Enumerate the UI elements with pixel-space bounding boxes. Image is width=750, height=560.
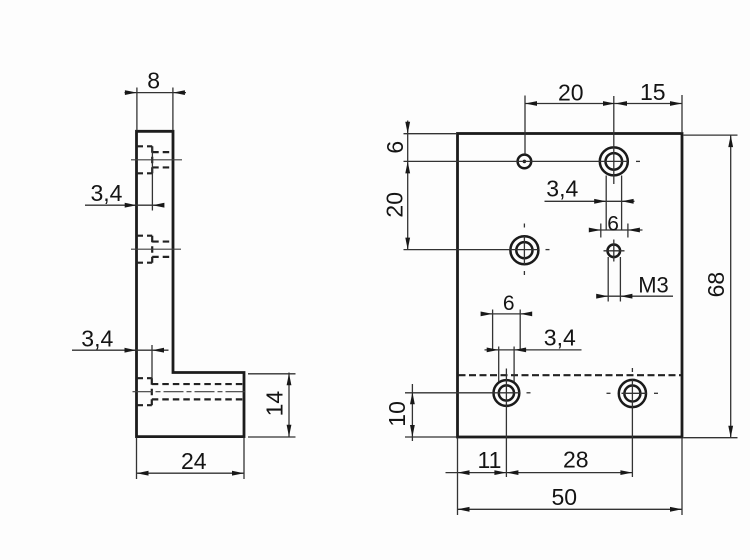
svg-text:3,4: 3,4 (81, 326, 113, 352)
svg-text:8: 8 (147, 67, 160, 93)
svg-text:6: 6 (503, 292, 515, 315)
svg-text:20: 20 (382, 192, 408, 218)
svg-text:28: 28 (563, 447, 589, 473)
svg-text:3,4: 3,4 (91, 180, 123, 206)
svg-text:50: 50 (552, 484, 578, 510)
svg-text:24: 24 (181, 448, 207, 474)
svg-text:10: 10 (384, 401, 410, 427)
svg-text:14: 14 (262, 391, 288, 417)
svg-text:6: 6 (607, 212, 619, 235)
svg-text:68: 68 (703, 272, 729, 298)
svg-text:15: 15 (640, 79, 666, 105)
svg-text:3,4: 3,4 (544, 324, 576, 350)
svg-text:11: 11 (478, 447, 502, 473)
svg-text:20: 20 (558, 80, 584, 106)
svg-text:M3: M3 (638, 273, 669, 298)
svg-text:6: 6 (382, 141, 408, 154)
svg-text:3,4: 3,4 (546, 176, 578, 202)
